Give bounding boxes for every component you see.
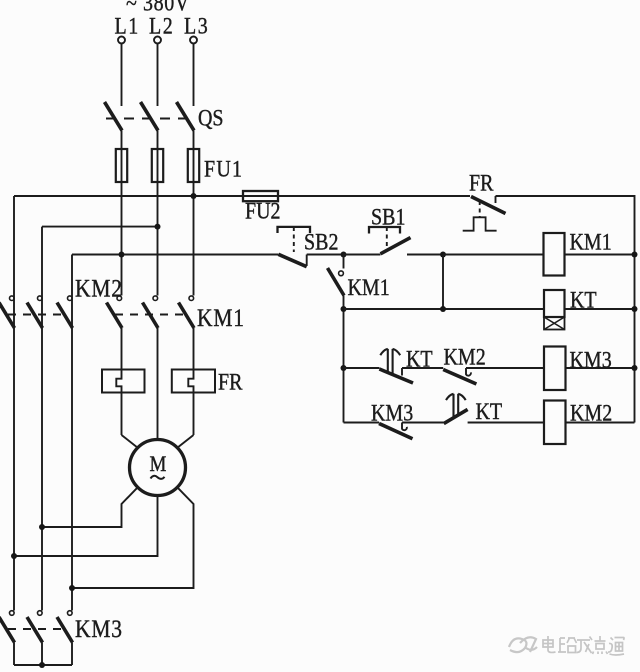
pushbutton SB1 start operator: [369, 227, 400, 249]
label FR contact: [469, 170, 494, 196]
svg-text:SB2: SB2: [304, 229, 338, 255]
svg-text:KM3: KM3: [371, 400, 413, 426]
svg-text:QS: QS: [198, 105, 224, 131]
coil KM2: [544, 401, 635, 445]
label KM3 row4: [371, 400, 413, 426]
wire left rail 3: [71, 255, 73, 611]
label KM2 coil: [570, 400, 612, 426]
wire row 2: [344, 308, 545, 310]
switch QS pole 1: [105, 102, 123, 131]
contactor KM1 mechanical link: [115, 314, 188, 316]
thermal relay FR heater 2 with wire: [172, 328, 215, 435]
wire control bus from left rail to FU2: [14, 195, 243, 197]
svg-text:FR: FR: [469, 170, 494, 196]
contactor KM3 mechanical link: [8, 628, 66, 630]
contact KT delayed normally-open: [379, 349, 443, 383]
contact KT delayed closing: [444, 394, 544, 424]
svg-text:KM2: KM2: [444, 344, 486, 370]
contact SB1 normally-open: [344, 238, 444, 255]
label KM1 coil: [570, 229, 612, 255]
thermal relay FR heater 1 with wire: [102, 328, 145, 435]
label FU1: [204, 156, 243, 182]
contactor KM1 main pole 1: [107, 296, 123, 328]
node L1 terminal: [115, 13, 140, 43]
wire motor lead bottom-middle to rail 1: [14, 496, 158, 557]
contactor KM2 main pole 2: [27, 296, 43, 328]
switch QS pole 2: [141, 102, 159, 131]
wire L1 into motor: [122, 435, 138, 448]
wire row3 left: [344, 367, 380, 369]
label KT coil: [570, 287, 597, 313]
thermal trip symbol of FR: [463, 201, 497, 231]
wire control bus FU2 to FR contact: [278, 195, 470, 197]
switch QS mechanical link: [106, 118, 191, 120]
label FR heaters: [218, 369, 243, 395]
node L2 terminal: [149, 13, 174, 43]
label QS: [198, 105, 224, 131]
svg-text:KT: KT: [570, 287, 597, 313]
wire motor lead bottom-left to rail 2: [42, 487, 138, 527]
label KT row3: [406, 346, 433, 372]
contact SB2 normally-closed: [278, 254, 343, 266]
node junction right rail row2: [632, 306, 638, 312]
coil KT time relay: [544, 290, 635, 330]
svg-text:KM1: KM1: [570, 229, 612, 255]
contactor KM1 main pole 2: [143, 296, 159, 328]
wire parallel connector row1 to row2: [442, 255, 444, 310]
node A junction SB2 output: [341, 252, 347, 258]
wire L2 FU1 to KM contacts: [157, 182, 159, 296]
wire row4 left: [344, 422, 380, 424]
svg-text:FU1: FU1: [204, 156, 243, 182]
label KM3 coil: [570, 347, 612, 373]
label KM2 main: [75, 275, 123, 303]
wire right rail: [634, 255, 636, 423]
wire QS to FU1 L1: [121, 131, 123, 150]
wire left rail 2: [41, 227, 43, 611]
label SB1: [371, 204, 405, 230]
node junction left rail row2: [341, 306, 347, 312]
label KM1 main: [197, 304, 245, 332]
wire L3 into motor: [177, 435, 193, 448]
contactor KM1 main pole 3: [179, 296, 195, 328]
coil KM1: [544, 233, 635, 276]
node B junction row1: [440, 252, 446, 258]
node junction rail2 motor lead: [39, 524, 45, 530]
contactor KM2 mechanical link: [8, 314, 66, 316]
node junction right rail row3: [632, 365, 638, 371]
svg-text:L1: L1: [115, 13, 140, 39]
wire motor lead bottom-right to rail 3: [72, 487, 194, 588]
node junction star point: [39, 662, 45, 668]
switch QS pole 3: [177, 102, 195, 131]
label KM3 main: [75, 615, 123, 643]
contact KM2 interlock normally-closed: [443, 368, 544, 384]
coil KM3: [544, 347, 635, 391]
wire L3 FU1 to KM contacts: [193, 182, 195, 296]
wire star point bus: [14, 664, 72, 666]
svg-text:L3: L3: [184, 13, 209, 39]
pushbutton SB2 stop operator: [278, 227, 311, 252]
contact KM3 interlock normally-closed: [379, 423, 444, 439]
svg-text:L2: L2: [149, 13, 174, 39]
svg-text:KT: KT: [476, 399, 503, 425]
node L3 terminal: [184, 13, 209, 43]
node junction rail3 motor lead: [69, 585, 75, 591]
wire L2 drop to QS: [157, 44, 159, 107]
fuse FU1 element 3: [188, 149, 199, 182]
svg-text:KT: KT: [406, 346, 433, 372]
label KT row4: [476, 399, 503, 425]
watermark logo: [509, 637, 537, 652]
svg-text:KM2: KM2: [75, 275, 123, 303]
svg-text:FU2: FU2: [245, 198, 281, 224]
label SB2: [304, 229, 338, 255]
svg-text:KM3: KM3: [75, 615, 123, 643]
wire QS to FU1 L2: [157, 131, 159, 150]
contactor KM2 main pole 1: [0, 296, 15, 328]
svg-text:SB1: SB1: [371, 204, 405, 230]
fuse FU1 element 1: [116, 149, 127, 182]
svg-text:M: M: [150, 452, 167, 477]
node junction L2 tap: [155, 224, 161, 230]
node junction connector row2: [440, 306, 446, 312]
wire tap 3 / control row from left rail 3 to SB2: [72, 254, 278, 256]
contactor KM3 pole 1: [0, 611, 15, 665]
label ~380V: [126, 0, 190, 16]
wire node B to KM1 coil: [443, 254, 544, 256]
wire left rail 1: [13, 196, 15, 611]
node junction L1 tap: [119, 252, 125, 258]
svg-text:KM2: KM2: [570, 400, 612, 426]
fuse FU1 element 2: [152, 149, 163, 182]
svg-text:KM3: KM3: [570, 347, 612, 373]
wire tap 2 from L2 to left rail 2: [42, 226, 158, 228]
svg-text:KM1: KM1: [348, 275, 390, 301]
watermark text 电路成点通 drawn as strokes: [543, 636, 624, 655]
contact FR normally-closed: [471, 196, 506, 214]
node junction right rail row1: [632, 252, 638, 258]
svg-text:FR: FR: [218, 369, 243, 395]
node junction left rail row3: [341, 365, 347, 371]
wire control bus FR to right rail: [496, 196, 635, 255]
contactor KM2 main pole 3: [57, 296, 73, 328]
node junction L3 and control bus: [191, 193, 197, 199]
contactor KM3 pole 3: [57, 611, 73, 665]
label KM2 row3: [444, 344, 486, 370]
fuse FU2: [243, 191, 278, 201]
label KM1 auxiliary: [348, 275, 390, 301]
node junction rail1 motor lead: [11, 553, 17, 559]
contact KM1 auxiliary self-holding: [328, 255, 345, 423]
contactor KM3 pole 2: [27, 611, 43, 665]
wire L1 drop to QS: [121, 44, 123, 107]
motor M: [130, 440, 186, 496]
wire L3 drop to QS: [193, 44, 195, 107]
svg-text:KM1: KM1: [197, 304, 245, 332]
wire QS to FU1 L3: [193, 131, 195, 150]
wire L2 KM1 to motor: [157, 328, 159, 440]
wire L1 FU1 to KM contacts: [121, 182, 123, 296]
label FU2: [245, 198, 281, 224]
